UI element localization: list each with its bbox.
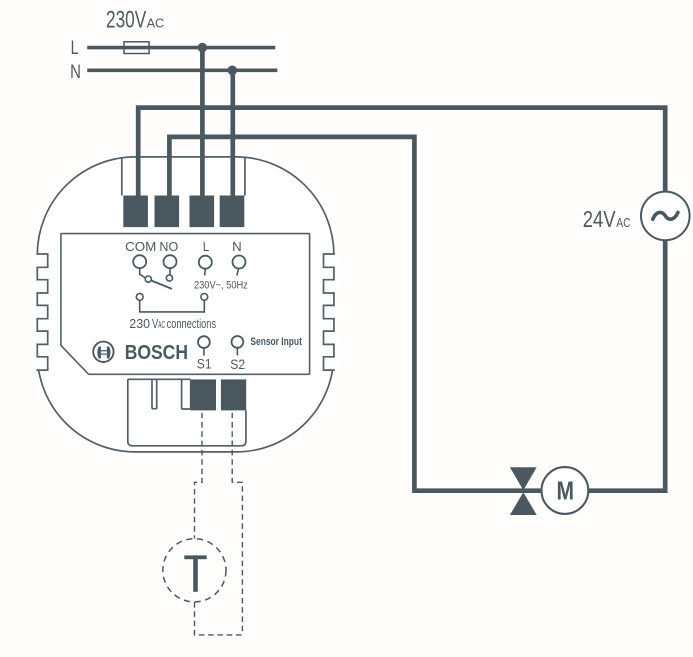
relay NO lead: [169, 268, 171, 275]
label 230Vac connections: [129, 316, 216, 331]
sensor T glyph: [184, 555, 206, 591]
terminal bay left wall: [121, 158, 123, 196]
terminal pin N: [233, 256, 246, 269]
Bosch logo symbol: [93, 342, 113, 362]
terminal pin COM: [133, 255, 146, 268]
terminal block L: [190, 196, 215, 228]
terminal block N: [220, 196, 245, 228]
svg-text:BOSCH: BOSCH: [125, 342, 188, 364]
bracket pin left: [136, 294, 143, 301]
svg-text:L: L: [203, 239, 209, 254]
terminal block COM: [123, 196, 148, 228]
valve symbol: [510, 467, 537, 515]
label 24VAC: [583, 206, 631, 232]
body notches left: [31, 254, 48, 370]
wire N rail: [87, 69, 277, 73]
svg-text:230V~, 50Hz: 230V~, 50Hz: [194, 279, 248, 291]
svg-text:AC: AC: [616, 215, 630, 230]
24VAC source: [641, 192, 690, 241]
connector footprint outline: [128, 379, 246, 446]
label plate: [61, 234, 310, 375]
svg-text:S1: S1: [197, 356, 212, 371]
svg-text:AC: AC: [147, 16, 165, 31]
terminal bay right wall: [244, 157, 246, 195]
wire L drop: [200, 48, 205, 199]
svg-text:24V: 24V: [583, 206, 616, 232]
dashed sensor wire S2: [232, 410, 242, 635]
wire M to 24VAC return: [586, 240, 665, 491]
wire COM to 24VAC source: [138, 108, 665, 199]
svg-text:230: 230: [129, 316, 150, 331]
bottom terminal S2: [221, 379, 246, 410]
svg-text:N: N: [70, 61, 81, 83]
svg-text:Sensor Input: Sensor Input: [250, 336, 302, 348]
wire L rail: [87, 46, 275, 50]
terminal block NO: [155, 196, 180, 228]
svg-text:NO: NO: [159, 239, 178, 254]
motor M: [542, 467, 589, 514]
thermostat body: [37, 157, 334, 452]
bottom terminal S1: [191, 379, 216, 410]
junction node L: [198, 43, 208, 53]
stub under pin S1: [203, 348, 205, 356]
relay COM pivot: [145, 276, 151, 282]
svg-text:S2: S2: [230, 357, 245, 372]
svg-text:230V: 230V: [106, 7, 146, 34]
bracket pin right: [201, 294, 208, 301]
terminal pin NO: [164, 255, 177, 268]
dashed sensor wire left lower: [195, 602, 243, 635]
svg-text:M: M: [557, 476, 575, 506]
sensor T circle: [163, 539, 226, 602]
svg-text:AC: AC: [158, 320, 165, 331]
bracket 230Vac connections: [140, 300, 205, 312]
sensor pin S2: [232, 336, 244, 348]
terminal pin L: [199, 256, 212, 269]
wire NO to valve: [169, 137, 546, 491]
relay NO pivot: [166, 275, 172, 281]
fuse F1: [124, 42, 149, 54]
relay blade: [151, 280, 172, 289]
svg-text:connections: connections: [167, 316, 217, 331]
svg-text:L: L: [71, 37, 79, 59]
svg-text:N: N: [232, 239, 242, 254]
stub under pin N: [237, 269, 239, 276]
stub under pin L: [204, 269, 207, 276]
junction node N: [228, 66, 238, 76]
body notches right: [324, 254, 341, 370]
sensor pin S1: [198, 336, 210, 348]
wire N drop: [230, 70, 235, 199]
label 230VAC supply: [106, 7, 164, 34]
relay COM lead: [140, 268, 146, 278]
svg-text:COM: COM: [125, 239, 156, 254]
dashed sensor wire S1: [195, 410, 203, 538]
stub under pin S2: [236, 348, 238, 356]
